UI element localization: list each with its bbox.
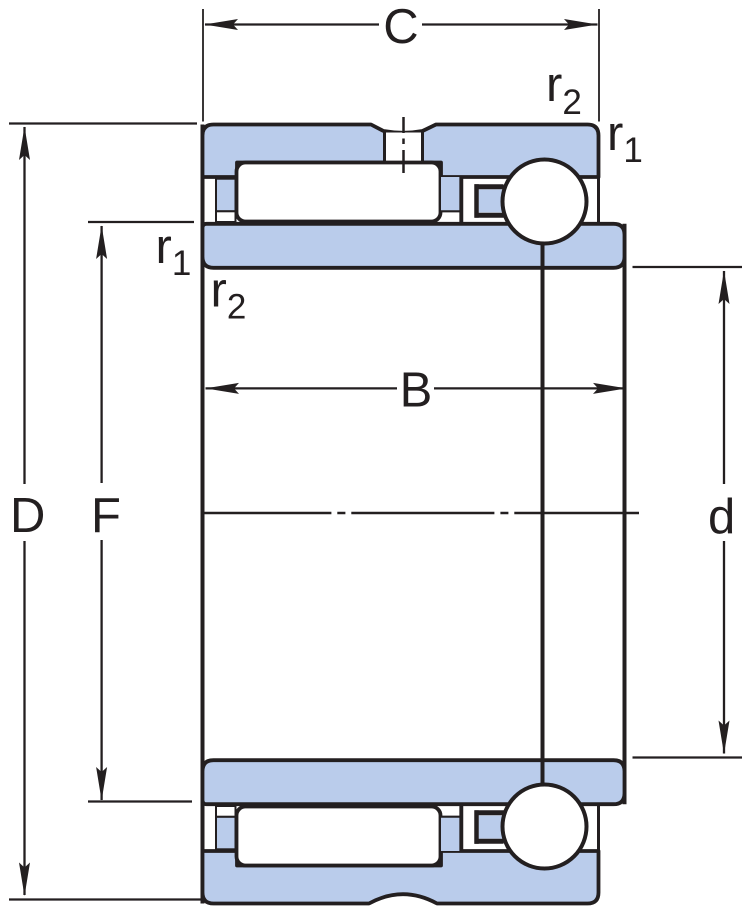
ball cage bracket bottom bar (bottom) <box>475 810 504 815</box>
extension line d top <box>633 266 743 268</box>
cage bar left (bottom) <box>216 817 236 850</box>
svg-text:d: d <box>708 490 735 544</box>
dimension line C <box>205 23 379 25</box>
extension line C right <box>598 9 600 122</box>
dimension line D <box>23 127 25 484</box>
extension line F bottom <box>88 800 192 802</box>
wire: bearing axis centerline (dash-dot) <box>203 512 639 515</box>
dimension F <box>88 222 194 802</box>
cage vertical edge line <box>459 177 463 222</box>
ball cage bracket bottom bar (top) <box>475 213 504 218</box>
cage block right of needle (top) <box>441 177 461 211</box>
arrowhead C left <box>205 19 239 30</box>
wire: outer-ring-face to inner-ring connector (bottom right) <box>597 804 600 851</box>
arrowhead d up <box>719 271 730 305</box>
svg-text:F: F <box>91 489 121 543</box>
bottom half of bearing section (mirror) <box>203 760 625 903</box>
extension line d bottom <box>633 756 743 758</box>
arrowhead D down <box>19 863 30 897</box>
wire: inner ring right face silhouette line <box>623 224 627 804</box>
dimension line F <box>100 226 102 483</box>
inner ring (top) <box>203 224 625 268</box>
cage pocket white box left (bottom) <box>216 806 236 817</box>
wire: inner ring split line <box>541 243 545 785</box>
arrowhead F up <box>96 226 107 260</box>
extension line C left <box>202 9 204 122</box>
needle roller (top) <box>237 163 441 222</box>
wire: outer-ring-face to inner-ring connector (top right) <box>597 177 600 224</box>
ball cage bracket top bar (bottom) <box>475 839 504 844</box>
outer ring (bottom) <box>203 851 599 904</box>
arrowhead D up <box>19 127 30 161</box>
arrowhead B right <box>593 383 627 394</box>
hole wall right <box>421 130 424 163</box>
extension line F top <box>88 221 194 223</box>
cage vertical edge line (bottom) <box>459 806 463 851</box>
cage block bottom line <box>441 210 461 212</box>
svg-text:D: D <box>10 489 45 543</box>
ball cage bracket top bar (top) <box>475 184 504 189</box>
ball (top) <box>503 160 587 244</box>
svg-text:B: B <box>400 364 433 418</box>
needle roller (bottom) <box>237 807 441 866</box>
dimension D <box>9 124 203 900</box>
arrowhead C right <box>564 19 598 30</box>
cage bar left (top) <box>216 179 236 212</box>
top half of bearing section <box>203 125 625 268</box>
dimension line d <box>723 271 725 484</box>
dimension B <box>206 364 627 418</box>
hole wall left <box>383 130 386 163</box>
arrowhead d down <box>719 721 730 755</box>
wire: lubrication hole centerline (dash-dot) <box>402 117 405 173</box>
dimension d <box>633 267 743 758</box>
cage pocket white box left (top) <box>216 211 236 222</box>
ball cage bracket left wall (bottom) <box>474 810 479 844</box>
wire: left face silhouette line <box>201 125 205 904</box>
extension line D top <box>9 122 197 124</box>
lubrication hole (top outer ring) <box>386 133 422 162</box>
cage block bottom line (bottom) <box>441 816 461 818</box>
svg-text:C: C <box>383 0 418 54</box>
dimension C <box>203 0 599 122</box>
cage block right of needle (bottom) <box>441 817 461 851</box>
arrowhead B left <box>206 383 240 394</box>
extension line D bottom <box>9 898 203 900</box>
outer ring (top) <box>203 125 599 178</box>
inner ring (bottom) <box>203 760 625 804</box>
dimension line B <box>206 387 398 389</box>
arrowhead F down <box>96 767 107 801</box>
ball cage blue square (bottom) <box>479 816 506 839</box>
ball cage blue square (top) <box>479 189 506 212</box>
ball (bottom) <box>503 785 587 869</box>
ball cage bracket left wall (top) <box>474 184 479 218</box>
